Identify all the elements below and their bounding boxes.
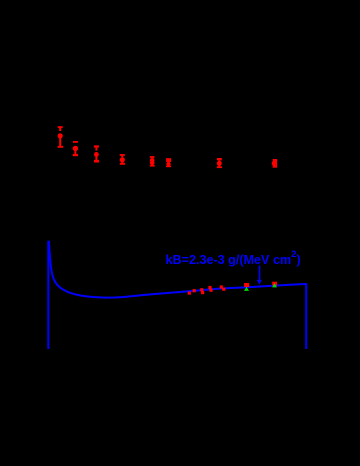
svg-text:kB=2.3e-3 g/(MeV cm2): kB=2.3e-3 g/(MeV cm2) bbox=[166, 249, 301, 267]
